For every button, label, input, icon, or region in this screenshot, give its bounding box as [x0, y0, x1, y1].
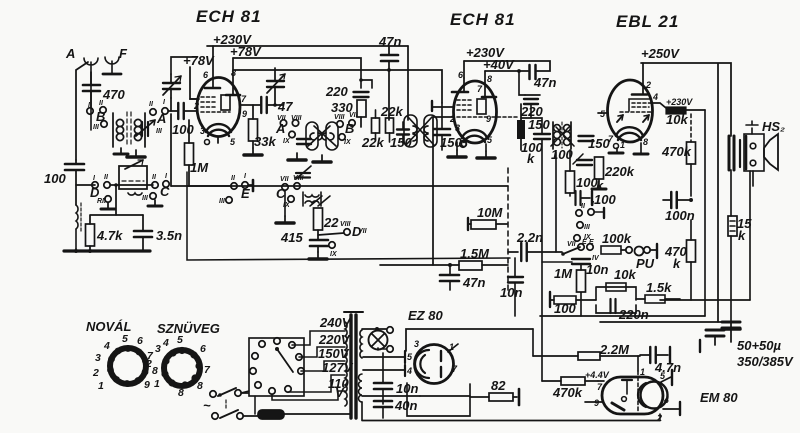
terminal IX det [574, 235, 580, 241]
svg-text:PU: PU [636, 256, 655, 271]
svg-text:RII: RII [97, 198, 107, 205]
tap 220V [299, 332, 351, 357]
svg-text:+230V: +230V [666, 97, 693, 107]
svg-text:EM 80: EM 80 [700, 390, 738, 405]
V5 pin5 lead [660, 370, 672, 385]
oscillator coil box [119, 160, 147, 195]
terminal IX [289, 131, 295, 137]
wire selector box down to fuse line [254, 396, 256, 414]
wire horizontal y322 [600, 321, 731, 323]
svg-text:2.2n: 2.2n [516, 230, 543, 245]
svg-text:4: 4 [103, 340, 110, 352]
svg-text:NOVÁL: NOVÁL [86, 319, 132, 334]
V4 cathode arc [415, 350, 429, 378]
terminal IX osc [288, 196, 294, 202]
resistor 1M (osc grid) [185, 120, 210, 186]
V3 grid dashes [620, 103, 652, 112]
svg-text:47: 47 [277, 99, 293, 114]
junction dot lower [114, 183, 118, 187]
V4 bottom frame [407, 383, 470, 416]
wire trimmer down to grid node [170, 98, 172, 111]
vertical wire V2 cathode down [432, 117, 434, 265]
wire heater bus [362, 395, 420, 397]
right bus vertical 4 [749, 171, 751, 300]
wire heater bottom bus [362, 420, 660, 422]
wire +230V bus [207, 45, 408, 47]
IF1 tuning cap left [297, 139, 311, 144]
svg-text:150V: 150V [318, 346, 350, 361]
svg-text:82: 82 [491, 378, 506, 393]
ground IF1 right [313, 155, 331, 162]
svg-text:127V: 127V [322, 360, 354, 375]
resistor 15k (right bus) [728, 216, 752, 243]
svg-text:k: k [738, 228, 746, 243]
wire 1M bottom to bus [580, 292, 582, 316]
speaker cone [764, 134, 778, 170]
svg-text:10k: 10k [614, 267, 636, 282]
resistor 100k (PU) [601, 231, 632, 254]
svg-text:220k: 220k [604, 164, 635, 179]
terminals VII VIII (V1 out) [280, 120, 286, 126]
V1 pin1 lead [190, 98, 197, 100]
V3 cathode arcs [616, 127, 643, 136]
svg-text:+78V: +78V [230, 44, 262, 59]
V3 pin5 lead [598, 112, 607, 114]
svg-text:VIII: VIII [291, 115, 303, 122]
ground C [148, 200, 162, 206]
terminal D VII (osc right) [344, 229, 350, 235]
voltage selector rotary [250, 338, 304, 394]
wire screen bus y70 [233, 70, 442, 103]
terminal I (top left) [87, 108, 93, 114]
V4 anode bars [441, 351, 445, 377]
wire +230V drop to V1 anode [212, 46, 214, 88]
V5 pin1 stem dashed [638, 356, 645, 413]
svg-text:A: A [275, 121, 285, 136]
svg-text:3: 3 [414, 339, 419, 349]
V2 grid dashes [457, 100, 490, 117]
tube V4 EZ80 envelope [415, 345, 454, 384]
svg-text:8: 8 [178, 387, 184, 399]
svg-text:470k: 470k [552, 385, 583, 400]
capacitor 100 (grid coupling) [172, 103, 197, 137]
capacitor 10n (PSU 1) [374, 353, 418, 404]
V4 pin leads left [363, 357, 404, 370]
NOVAL socket ring [92, 333, 158, 392]
wire +230V drop at 408 [407, 46, 409, 120]
transformer secondary heater bumps [359, 374, 363, 402]
svg-text:22: 22 [323, 215, 339, 230]
capacitor 100 (IF2) [521, 118, 550, 166]
svg-text:9: 9 [486, 114, 491, 124]
terminals VII VIII (osc IF) [282, 184, 288, 190]
V2 anode bar [452, 91, 468, 94]
svg-text:VII: VII [358, 228, 368, 235]
V2 anode stem [463, 78, 465, 92]
osc coil assembly [303, 192, 321, 206]
svg-text:VIII: VIII [340, 221, 352, 228]
junction dot at 47 [273, 103, 277, 107]
svg-text:4: 4 [663, 395, 669, 405]
capacitor 150 (IF1 right) [390, 122, 412, 150]
E bar terminal [252, 180, 255, 191]
tube V2 ECH81 envelope [454, 81, 497, 143]
terminal I (right of coil) [162, 108, 168, 114]
svg-text:220: 220 [325, 84, 348, 99]
terminal IX bottom [329, 242, 335, 248]
V4 pin3 loop wire [406, 329, 533, 351]
power transformer core [344, 312, 363, 418]
capacitor 220 (IF1) [325, 84, 369, 99]
capacitor 150 (V2 grid series) [432, 101, 453, 150]
lower terminals row I II [92, 182, 98, 188]
V3 grid box [629, 99, 650, 111]
V2 pin4 circle [462, 142, 467, 147]
V2 grid box [477, 99, 486, 114]
terminal II (AVC) [231, 183, 237, 189]
V2 screen bar [482, 96, 496, 99]
wire detector bus vertical [541, 139, 543, 381]
terminal II (top left) [100, 107, 106, 113]
node F terminal [577, 222, 583, 228]
V3 anode stem [642, 63, 644, 94]
capacitor (415 block) [309, 240, 328, 259]
terminal III (AVC) [226, 197, 232, 203]
V5 cathode stroke [612, 403, 624, 410]
capacitor 3.5n [134, 215, 182, 251]
svg-text:F: F [119, 46, 128, 61]
right bus vertical 1 [704, 110, 706, 316]
V1 pin4 circle [205, 140, 210, 145]
svg-text:VIII: VIII [334, 114, 346, 121]
svg-text:A: A [65, 46, 75, 61]
svg-text:1M: 1M [554, 266, 573, 281]
terminals E E [578, 244, 584, 250]
V3 pin6 circle [614, 144, 619, 149]
transformer primary bumps [345, 322, 347, 406]
box border left [187, 172, 510, 260]
trimmer cap (V1 anode tank) [267, 68, 285, 105]
svg-text:6: 6 [137, 335, 143, 347]
wire drop to V2 pin6 [463, 61, 465, 78]
resistor 100k (det col) [566, 150, 605, 196]
capacitor 47 (coupling) [261, 97, 293, 114]
terminal RII [105, 196, 111, 202]
right bus vertical 3 [730, 170, 732, 216]
resistor 1.5k (cathode) [636, 280, 680, 303]
resistor 22k (right of pair) [380, 104, 403, 142]
svg-text:~: ~ [203, 398, 211, 413]
svg-text:E: E [582, 239, 587, 246]
svg-text:E: E [241, 186, 250, 201]
earth F symbol [105, 57, 119, 73]
svg-text:2.2M: 2.2M [599, 342, 630, 357]
svg-text:k: k [673, 256, 681, 271]
svg-text:33k: 33k [254, 134, 276, 149]
ground 220k [592, 179, 606, 189]
svg-text:150: 150 [528, 117, 550, 132]
wire +250V bus [641, 63, 731, 322]
wire EM80 grid from 470k [598, 380, 604, 382]
ground D [101, 203, 115, 209]
wire +78V left to V1 grid [190, 67, 199, 99]
svg-text:A: A [156, 111, 166, 126]
tube V5 EM80 envelope [602, 377, 663, 414]
capacitor 150 (IF2 right) [579, 136, 611, 151]
terminal PU small [626, 247, 632, 253]
svg-text:50+50µ: 50+50µ [737, 338, 782, 353]
output transformer primary bars [729, 136, 740, 170]
resistor 10M [468, 205, 507, 230]
IF2 transformer [553, 122, 571, 149]
wire 2.2M node down [543, 338, 545, 381]
capacitor 220n (left col) [608, 301, 610, 315]
wire transformer to bottom bus [361, 402, 363, 420]
V3 anode bar [632, 93, 647, 96]
AVC bus line [171, 185, 231, 187]
dashed AVC vertical [507, 168, 509, 290]
capacitor 10n (below 2.2n) [500, 258, 523, 316]
V2 pin9 dashed lead [492, 116, 519, 118]
wire V1 pin7 to IF1 area [280, 104, 283, 106]
svg-text:1: 1 [640, 367, 645, 377]
wire V2 pin2 lead left [433, 116, 453, 118]
svg-text:4.7k: 4.7k [96, 228, 123, 243]
resistor 1M (AF) [554, 264, 586, 292]
terminals II I (det) [576, 210, 582, 216]
trimmer arrows IF1 [308, 126, 336, 146]
V1 anode bar [205, 87, 220, 90]
svg-text:VII: VII [567, 241, 577, 248]
wire switch pivot link [542, 261, 572, 263]
wire det secondary down to switch [555, 152, 557, 252]
svg-text:ECH 81: ECH 81 [450, 10, 516, 29]
svg-text:10k: 10k [666, 112, 688, 127]
svg-text:10n: 10n [586, 262, 608, 277]
coil core dashes [127, 112, 131, 146]
wire selector to switch [248, 367, 249, 396]
tube V1 ECH81 envelope [197, 78, 240, 137]
wire top of 4.7k/3.5n [90, 215, 143, 224]
tap 240V [292, 315, 352, 345]
svg-text:8: 8 [643, 137, 648, 147]
capacitor (det) [577, 160, 592, 165]
svg-text:2: 2 [645, 80, 651, 90]
svg-text:10M: 10M [477, 205, 503, 220]
capacitor 220 (second IF) [520, 95, 543, 119]
wire trimmer top up [171, 57, 197, 74]
V5 target screen circle [641, 382, 668, 409]
svg-text:1: 1 [98, 380, 104, 392]
terminal IX right [339, 134, 345, 140]
capacitor 47n (top) [378, 34, 401, 120]
svg-text:5: 5 [177, 334, 183, 346]
SZNUVEG socket ring [145, 334, 211, 399]
wire +78V bus [233, 58, 361, 70]
wire top I to grid line [168, 110, 178, 112]
wire V1 screen pin8 drop [232, 58, 234, 95]
tap 110V [272, 376, 349, 400]
wire AVC to 1.5M [380, 264, 450, 266]
capacitor 47n (second) [530, 65, 557, 90]
svg-text:100k: 100k [602, 231, 632, 246]
terminal 6 circle under V2 [460, 141, 466, 147]
antenna A symbol [84, 58, 98, 130]
ground V3 cathode pin [609, 148, 623, 153]
terminal III (left) [101, 121, 107, 127]
wire lower row [76, 184, 153, 186]
svg-text:k: k [596, 178, 604, 193]
trimmer arrow over coil [136, 120, 155, 136]
wire V2 pin8 drop [484, 71, 486, 97]
svg-text:5: 5 [122, 333, 128, 345]
terminals VIII VII (IF1 right) [337, 121, 343, 127]
V4 pin1 lead [448, 344, 458, 352]
speaker box [744, 134, 764, 171]
svg-text:3: 3 [95, 352, 101, 364]
svg-text:2: 2 [193, 101, 199, 111]
svg-text:3: 3 [155, 343, 161, 355]
svg-text:150: 150 [588, 136, 610, 151]
svg-text:470k: 470k [661, 144, 692, 159]
resistor 4.7k [86, 205, 124, 251]
svg-text:1.5M: 1.5M [460, 246, 490, 261]
svg-text:V: V [335, 385, 345, 400]
svg-text:E: E [589, 239, 594, 246]
svg-text:4: 4 [406, 366, 412, 376]
svg-text:8: 8 [152, 365, 158, 377]
resistor 10k (V3 anode feed) [666, 107, 705, 127]
svg-text:8: 8 [231, 68, 236, 78]
PU bar [656, 244, 658, 258]
capacitor 10n (PSU 2) [374, 398, 417, 418]
svg-text:4.7n: 4.7n [654, 360, 681, 375]
V5 pin9 lead [585, 398, 602, 408]
svg-text:350/385V: 350/385V [737, 354, 794, 369]
IF2 input transformer loops [404, 115, 437, 147]
svg-text:8: 8 [487, 74, 492, 84]
resistor 33k [244, 105, 276, 155]
svg-text:47n: 47n [462, 275, 485, 290]
wire +230V second bus [464, 61, 550, 71]
wire EZ80 output right [532, 329, 534, 356]
wire IF2 column feed [519, 71, 525, 95]
svg-text:1.5k: 1.5k [646, 280, 672, 295]
ground bus bar bottom left [64, 249, 150, 252]
speaker terminal symbol [746, 121, 758, 134]
transformer secondary HT bumps [360, 330, 362, 358]
ground IF1 left [288, 153, 306, 160]
junction dot 1.5M [448, 263, 452, 267]
svg-text:EZ 80: EZ 80 [408, 308, 443, 323]
svg-text:150: 150 [440, 135, 462, 150]
wire 220 cap stem [361, 70, 372, 88]
V5 pin2 lead and ground [656, 402, 680, 423]
V3 pin4 lead to right [650, 103, 666, 108]
tap 127V [288, 360, 354, 392]
trimmer arrow det [573, 154, 583, 164]
svg-text:2: 2 [92, 367, 99, 379]
junction dot +40V [517, 69, 521, 73]
capacitor 47n (AVC) [440, 265, 485, 290]
svg-text:k: k [527, 151, 535, 166]
svg-text:ECH 81: ECH 81 [196, 7, 262, 26]
V1 grid dashes [201, 97, 230, 112]
wire speaker bottom [752, 171, 754, 186]
wire horizontal y316 [540, 315, 705, 317]
svg-text:6: 6 [200, 343, 206, 355]
svg-text:470: 470 [102, 87, 125, 102]
tap 150V [301, 346, 350, 371]
dial lamp [362, 327, 393, 352]
ground under coil [114, 148, 128, 154]
svg-text:22k: 22k [361, 135, 384, 150]
V3 diode arrow right [643, 115, 649, 122]
switch arrow (PU switch) [563, 247, 580, 254]
svg-text:+4.4V: +4.4V [585, 370, 610, 380]
small arrows on osc coil [310, 196, 330, 206]
svg-text:40n: 40n [394, 398, 417, 413]
tuning cap section1 [142, 122, 148, 136]
svg-text:4: 4 [162, 337, 169, 349]
selector frame box [249, 338, 304, 396]
svg-text:SZNÜVEG: SZNÜVEG [157, 321, 220, 336]
wire A column to bus [75, 249, 77, 251]
grounds under V2 grid area [448, 150, 466, 157]
wire PSU caps [362, 383, 374, 405]
svg-text:+78V: +78V [183, 53, 215, 68]
svg-text:EBL 21: EBL 21 [616, 12, 679, 31]
V3 diode arrow left [617, 115, 623, 122]
capacitor 100 (left, AM) [44, 160, 84, 205]
capacitor 100 (det lower) [576, 191, 617, 207]
svg-text:415: 415 [280, 230, 303, 245]
resistor 470k (lower right) [664, 220, 696, 300]
wire +40V [485, 70, 528, 72]
resistor 2.2M [533, 352, 640, 360]
resistor 22 [314, 208, 352, 240]
svg-text:B: B [345, 121, 354, 136]
fuse [258, 410, 351, 419]
feedback loop box [596, 287, 636, 313]
svg-text:2: 2 [656, 413, 662, 423]
trimmer arrows IF2 input [406, 117, 434, 145]
capacitor 100n (V3 grid) [663, 192, 695, 223]
svg-text:220n: 220n [618, 307, 649, 322]
electrolytic 50+50u cap2 [722, 322, 740, 342]
resistor 470k (V3 grid) [661, 114, 696, 196]
resistor 100 (AF) [550, 292, 596, 316]
V1 grid box [221, 95, 230, 110]
wire 82 to EM80 area [420, 395, 470, 397]
resistor 100k (IF2 col) fill [517, 104, 550, 150]
V2 cathode arcs [462, 130, 487, 138]
resistor 220k (det) [595, 157, 635, 179]
svg-text:4: 4 [652, 92, 658, 102]
terminal I (AVC) [242, 182, 248, 188]
antenna coil T1 [113, 113, 145, 147]
svg-text:100: 100 [554, 301, 576, 316]
resistor 1.5M [450, 246, 508, 270]
V1 pin7 lead [240, 104, 261, 106]
wire from terminal I down (AVC feed) [170, 114, 172, 186]
svg-text:VII: VII [280, 176, 290, 183]
mains switch pole2 [212, 400, 258, 419]
svg-text:100: 100 [172, 122, 194, 137]
svg-text:9: 9 [144, 379, 150, 391]
svg-text:3: 3 [455, 123, 460, 133]
AVC line long [187, 185, 508, 187]
